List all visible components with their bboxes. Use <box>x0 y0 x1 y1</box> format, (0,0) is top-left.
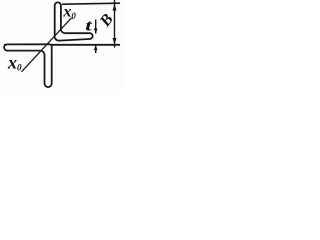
svg-text:t: t <box>85 17 92 34</box>
